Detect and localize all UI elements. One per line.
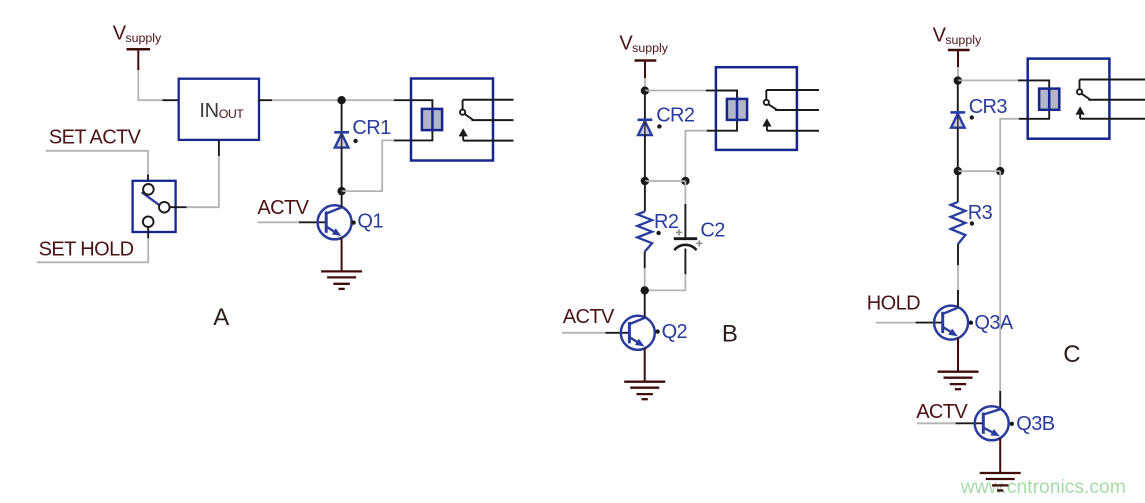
label ACTV (C) (916, 401, 968, 423)
transistor Q2 (621, 316, 655, 350)
diode CR3 (950, 81, 965, 172)
label Q1 (351, 211, 383, 233)
wire Q2 collector (644, 290, 646, 317)
svg-text:Q3B: Q3B (1016, 413, 1054, 435)
resistor R3 (951, 202, 966, 244)
label ACTV (B) (563, 306, 615, 328)
wire node B2 to B3 (645, 180, 686, 182)
relay K1 (A) (411, 79, 514, 161)
svg-text:C: C (1063, 341, 1080, 368)
svg-text:ACTV: ACTV (916, 401, 968, 423)
wire ACTV to Q3B base (917, 422, 983, 424)
wire node C2a to C2b (958, 170, 1000, 172)
svg-text:A: A (213, 304, 229, 331)
label CR1 (352, 117, 391, 143)
node junction A1 (337, 96, 345, 104)
label Q2 (655, 321, 687, 343)
svg-text:www.cntronics.com: www.cntronics.com (960, 477, 1126, 498)
wire relay coil return to node (B) (685, 131, 717, 180)
node junction C1 (954, 76, 962, 84)
svg-text:Q2: Q2 (662, 321, 688, 343)
wire node B3 to C2 (684, 181, 686, 238)
svg-text:SET HOLD: SET HOLD (39, 239, 134, 261)
wire node B1 to relay coil (B) (645, 90, 717, 92)
wire node to R3 (957, 171, 959, 202)
power V_supply (section C) (933, 24, 982, 81)
svg-text:B: B (722, 321, 737, 348)
label Q3A (969, 312, 1014, 334)
wire Q3A collector (957, 290, 959, 307)
capacitor C2 (674, 229, 703, 250)
node junction C2a (954, 167, 962, 175)
ground (B) (624, 382, 665, 400)
watermark www.cntronics.com (960, 477, 1126, 498)
wire node C2b down to Q3B collector (999, 171, 1001, 409)
transistor Q3A (934, 306, 968, 340)
section label B (722, 321, 737, 348)
wire Q1 emitter to ground (341, 237, 343, 270)
switch S1 (SET ACTV / SET HOLD selector) (133, 181, 187, 239)
wire switch to IN_OUT bottom pin (187, 140, 219, 207)
svg-text:CR1: CR1 (352, 117, 391, 139)
section label C (1063, 341, 1080, 368)
transistor Q3B (975, 406, 1009, 440)
wire R3 to Q3A collector (957, 244, 959, 291)
node junction C2b (996, 167, 1004, 175)
node junction B1 (641, 87, 649, 95)
wire C2 to node B4 (645, 249, 686, 291)
resistor R2 (637, 212, 652, 252)
ground (A) (321, 271, 362, 289)
label C2 (700, 220, 725, 242)
power V_supply (section B) (619, 32, 668, 91)
wire IN_OUT output to node (A) (258, 99, 412, 101)
wire Q2 emitter to ground (644, 348, 646, 381)
wire V_supply to IN_OUT box (A) (138, 99, 180, 101)
label R2 (654, 211, 679, 235)
svg-text:R2: R2 (654, 211, 679, 233)
label ACTV (A) (257, 197, 309, 219)
svg-text:CR2: CR2 (656, 105, 695, 127)
svg-text:ACTV: ACTV (563, 306, 615, 328)
power V_supply (section A) (113, 22, 162, 101)
label HOLD (867, 293, 920, 315)
wire HOLD to Q3A base (876, 322, 943, 324)
wire CR1 node to relay coil return (A) (342, 140, 412, 191)
node junction A2 (337, 187, 345, 195)
svg-text:CR3: CR3 (969, 96, 1008, 118)
wire Q3B emitter to ground (999, 438, 1001, 472)
label SET HOLD (39, 239, 134, 261)
relay K3 (C) (1028, 59, 1145, 139)
regulator U1 IN/OUT box (179, 79, 259, 140)
svg-text:SET ACTV: SET ACTV (49, 126, 142, 148)
node junction B2 (641, 177, 649, 185)
label CR2 (656, 105, 695, 129)
ground (C, under Q3B) (980, 473, 1021, 491)
wire relay coil return to node (C) (1000, 119, 1028, 170)
node junction B3 (681, 177, 689, 185)
wire node C1 to relay coil (C) (958, 79, 1029, 81)
transistor Q1 (318, 205, 352, 239)
svg-text:Q1: Q1 (357, 211, 383, 233)
wire ACTV to Q2 base (562, 332, 629, 334)
svg-text:C2: C2 (700, 220, 725, 242)
wire SET ACTV to switch (46, 151, 148, 184)
label Q3B (1010, 413, 1055, 435)
section label A (213, 304, 229, 331)
relay K2 (B) (716, 67, 819, 150)
diode CR1 (334, 100, 349, 191)
wire node B2 to R2 (644, 181, 646, 212)
wire R2 to node B4 (644, 252, 646, 291)
svg-text:HOLD: HOLD (867, 293, 920, 315)
node junction B4 (641, 286, 649, 294)
wire SET HOLD to switch (37, 238, 148, 262)
label CR3 (969, 96, 1008, 120)
diode CR2 (638, 91, 653, 181)
svg-text:R3: R3 (968, 202, 993, 224)
wire Q1 collector (341, 191, 343, 207)
wire Q3A emitter to ground (957, 338, 959, 371)
svg-text:Q3A: Q3A (974, 312, 1013, 334)
ground (C, under Q3A) (938, 372, 979, 390)
wire ACTV to Q1 base (258, 221, 327, 223)
label SET ACTV (49, 126, 142, 148)
label R3 (968, 202, 993, 226)
svg-text:ACTV: ACTV (257, 197, 309, 219)
